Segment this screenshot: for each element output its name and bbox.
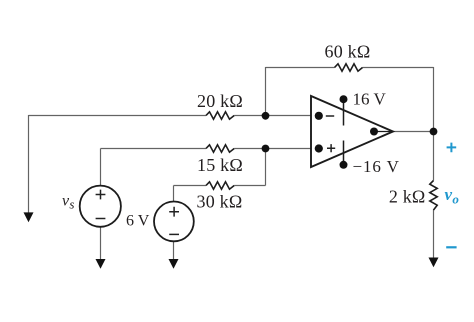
ground arrow under vs <box>96 259 106 269</box>
source 6V circle <box>154 202 194 242</box>
ground arrow under 6V <box>169 259 179 269</box>
svg-text:2 kΩ: 2 kΩ <box>389 187 426 207</box>
wire op-amp output <box>393 131 434 133</box>
pin noninverting input dot <box>315 144 323 152</box>
wire output node to 2k <box>433 132 435 181</box>
source 6V minus sign <box>169 233 179 235</box>
op-amp supply pin top <box>343 99 345 125</box>
source vs circle <box>80 186 121 227</box>
wire 30k row left <box>174 185 207 187</box>
svg-text:6 V: 6 V <box>126 213 150 230</box>
resistor 60k zigzag <box>335 64 363 71</box>
op-amp plus sign <box>327 144 335 152</box>
pin inverting input dot <box>315 112 323 120</box>
wire 30k row right <box>234 185 265 187</box>
pin output dot <box>370 128 378 136</box>
wire inverting input row left <box>29 115 207 117</box>
wire feedback top left segment <box>266 67 335 69</box>
wire feedback top right segment <box>363 67 434 69</box>
wire vs bottom <box>100 227 102 260</box>
node noninverting input junction <box>262 145 270 153</box>
label output minus <box>446 246 456 248</box>
wire 6V top <box>173 186 175 203</box>
source 6V plus sign <box>169 207 179 217</box>
op-amp output lead <box>374 131 392 133</box>
op-amp U1 triangle <box>311 96 393 167</box>
wire vs top <box>100 149 102 187</box>
resistor 15k zigzag <box>206 145 234 152</box>
ground arrow under 2k <box>429 258 439 268</box>
source vs plus sign <box>96 190 106 200</box>
svg-text:60 kΩ: 60 kΩ <box>325 42 371 62</box>
wire inverting input row right <box>234 115 311 117</box>
wire 6V bottom <box>173 241 175 260</box>
svg-text:vs: vs <box>62 193 74 212</box>
wire feedback right vertical <box>433 67 435 132</box>
resistor 30k zigzag <box>206 182 234 189</box>
node inverting input junction <box>262 112 270 120</box>
wire noninverting input row left <box>101 148 207 150</box>
svg-text:−16 V: −16 V <box>353 157 400 176</box>
svg-text:15 kΩ: 15 kΩ <box>197 155 243 175</box>
svg-text:20 kΩ: 20 kΩ <box>197 91 243 111</box>
svg-text:30 kΩ: 30 kΩ <box>197 192 243 212</box>
wire feedback left vertical <box>265 67 267 116</box>
op-amp supply pin bottom <box>343 141 345 165</box>
wire 30k vertical to noninverting node <box>265 149 267 186</box>
pin negative supply dot <box>340 161 348 169</box>
ground arrow left <box>24 212 34 222</box>
resistor 2k zigzag vertical <box>430 181 437 210</box>
node output junction <box>430 128 438 136</box>
wire noninverting input row right <box>234 148 311 150</box>
wire 2k to ground <box>433 210 435 259</box>
resistor 20k zigzag <box>206 112 234 119</box>
wire left drop to ground <box>28 115 30 213</box>
pin positive supply dot <box>340 95 348 103</box>
svg-text:16 V: 16 V <box>353 90 387 109</box>
source vs minus sign <box>96 218 106 220</box>
op-amp minus sign <box>326 115 334 117</box>
label output plus <box>447 143 457 153</box>
